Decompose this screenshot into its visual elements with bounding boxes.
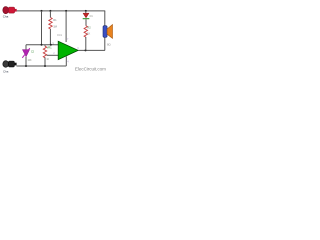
op-amp IC1 <box>52 11 79 63</box>
wire op-amp output <box>78 49 105 51</box>
svg-text:C2: C2 <box>31 52 35 54</box>
connector J1 (top input jack, red) <box>3 7 17 19</box>
svg-text:D1: D1 <box>90 15 94 18</box>
svg-text:10K: 10K <box>28 60 33 62</box>
svg-text:1K: 1K <box>46 59 49 61</box>
resistor R2 (vertical zigzag) <box>84 26 91 51</box>
svg-text:Cha: Cha <box>3 69 9 73</box>
wire op-amp pin4 riser <box>65 56 67 66</box>
wire speaker bottom drop <box>104 37 106 50</box>
microphone MIC1 (magenta element) <box>22 45 34 66</box>
svg-text:7: 7 <box>67 38 69 41</box>
svg-text:R1: R1 <box>53 18 57 22</box>
svg-text:R2: R2 <box>87 26 91 30</box>
svg-text:VR1: VR1 <box>47 46 52 49</box>
junction dots on top rail <box>41 10 43 12</box>
speaker SP1 <box>103 25 113 47</box>
svg-text:Cha: Cha <box>3 15 9 19</box>
svg-text:4: 4 <box>67 60 69 63</box>
variable resistor VR1 (vertical zigzag) <box>43 45 52 66</box>
svg-text:8Ω: 8Ω <box>107 43 111 47</box>
wire vertical x=41.5 <box>41 11 43 45</box>
wire right drop to speaker top <box>104 11 106 26</box>
wire bottom rail <box>17 65 67 67</box>
svg-text:1M: 1M <box>53 25 57 29</box>
svg-text:1K: 1K <box>87 31 90 35</box>
svg-text:6: 6 <box>77 47 79 50</box>
diode D1 <box>83 11 94 26</box>
wire top rail <box>17 10 106 12</box>
svg-text:IC1: IC1 <box>57 33 62 37</box>
svg-text:2: 2 <box>53 52 55 55</box>
connector J2 (bottom ground jack, black) <box>3 61 17 74</box>
wire input node line <box>26 44 58 46</box>
resistor R1 (vertical zigzag) <box>49 11 58 45</box>
svg-text:ElecCircuit.com: ElecCircuit.com <box>75 66 106 71</box>
wire inverting input (pin 2) <box>47 54 59 56</box>
